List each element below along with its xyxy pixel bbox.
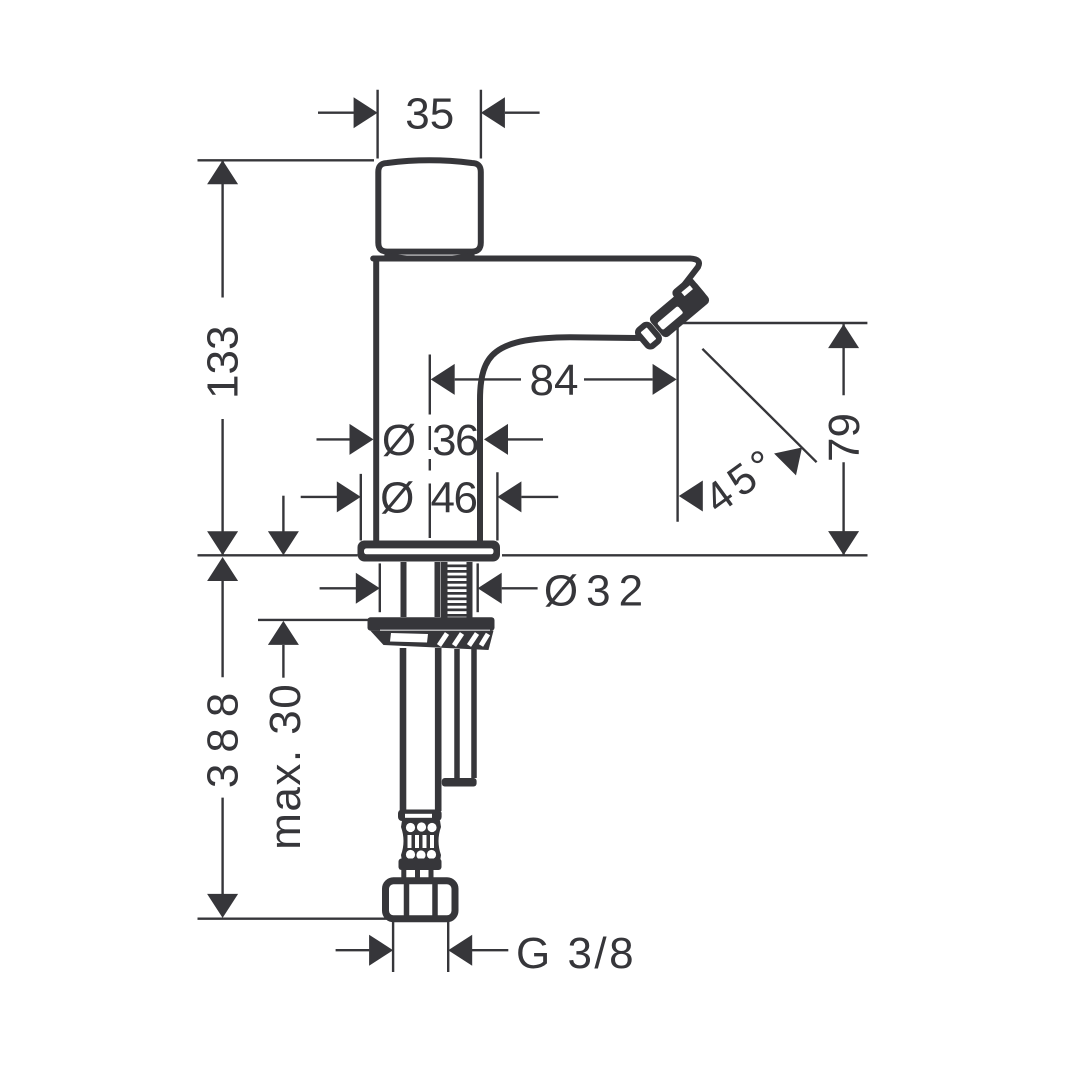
dimension 35 extension line right xyxy=(480,90,482,159)
dimension 133 top extension line xyxy=(198,159,375,161)
dimension G38 tail right xyxy=(472,949,508,951)
dimension D36 tail right xyxy=(508,438,543,440)
svg-text:max. 30: max. 30 xyxy=(261,683,310,850)
dimension 79 top extension line xyxy=(682,322,868,324)
mounting rod end cap xyxy=(442,778,477,787)
dimension 79 line lower xyxy=(842,462,844,555)
threaded shank xyxy=(441,562,473,618)
dimension G38 tail left xyxy=(336,949,370,951)
dimension D46 extension line left xyxy=(360,474,362,541)
dimension 79 line upper xyxy=(842,324,844,395)
arrowhead D36 right xyxy=(484,424,508,455)
dimension G38 extension line left xyxy=(392,921,394,972)
dimension D32 extension line left xyxy=(379,563,381,612)
dimension D32 tail right xyxy=(502,587,538,589)
arrowhead D36 left xyxy=(350,424,374,455)
svg-text:Ø: Ø xyxy=(382,416,416,465)
dimension max30 lower tail xyxy=(282,645,284,678)
arrowhead 84 left xyxy=(431,364,455,395)
svg-text:46: 46 xyxy=(431,473,477,522)
dimension 133 line upper xyxy=(221,160,223,297)
svg-text:79: 79 xyxy=(820,413,869,462)
dimension D32 tail left xyxy=(320,587,356,589)
supply pipe lower section xyxy=(403,648,438,811)
dimension 133 line lower xyxy=(221,419,223,555)
svg-text:Ø32: Ø32 xyxy=(544,566,651,615)
arrowhead 45deg on diagonal xyxy=(774,437,813,476)
svg-text:133: 133 xyxy=(199,326,248,399)
svg-text:36: 36 xyxy=(432,416,478,465)
svg-text:Ø: Ø xyxy=(380,473,414,522)
dimension 45deg diagonal line xyxy=(702,349,816,462)
arrowhead 133 bottom xyxy=(207,531,238,555)
dimension D46 tail right xyxy=(521,496,558,498)
svg-text:G 3/8: G 3/8 xyxy=(516,929,636,978)
dimension max30 upper tail xyxy=(282,496,284,532)
arrowhead D32 right xyxy=(478,573,502,604)
hose neck with slots xyxy=(404,870,431,882)
centerline axis dashed xyxy=(429,355,431,539)
arrowhead G38 left xyxy=(369,935,393,966)
faucet body and spout outline xyxy=(373,259,699,541)
arrowhead G38 right xyxy=(448,935,472,966)
dimension 388 bottom extension line xyxy=(198,918,392,920)
arrowhead 79 bottom xyxy=(828,531,859,555)
arrowhead 388 top xyxy=(207,557,238,581)
dimension 35 extension line left xyxy=(376,90,378,159)
arrowhead max30 top xyxy=(268,531,299,555)
dimension 388 line lower xyxy=(221,798,223,894)
arrowhead 35 right xyxy=(481,97,505,128)
arrowhead D46 right xyxy=(497,481,521,512)
dimension G38 extension line right xyxy=(447,921,449,972)
arrowhead 35 left xyxy=(354,97,378,128)
base flange xyxy=(358,541,501,562)
dimension 84 tail right xyxy=(584,378,653,380)
aerator assembly at 45 degrees xyxy=(631,276,711,351)
faucet handle knob xyxy=(378,160,481,259)
svg-text:388: 388 xyxy=(199,682,248,788)
hose lower collar xyxy=(399,859,442,871)
dimension 35 tail left xyxy=(318,111,354,113)
mounting washer top bar xyxy=(368,617,495,630)
arrowhead 84 right xyxy=(653,364,677,395)
countertop line right xyxy=(502,554,868,556)
threaded mounting rod xyxy=(457,649,474,778)
dimension D46 extension line right xyxy=(496,472,498,540)
dimension 84 tail left xyxy=(455,378,521,380)
dimension D36 tail left xyxy=(317,438,351,440)
arrowhead max30 bottom xyxy=(268,621,299,645)
dimension 35 tail right xyxy=(505,111,540,113)
hose corrugated section xyxy=(401,821,441,862)
arrowhead D32 left xyxy=(356,573,380,604)
arrowhead D46 left xyxy=(337,481,361,512)
dimension 84 right extension line xyxy=(676,323,678,522)
svg-text:84: 84 xyxy=(530,356,579,405)
arrowhead 388 bottom xyxy=(207,894,238,918)
dimension max30 washer extension line xyxy=(258,619,371,621)
dimension 388 line upper xyxy=(221,578,223,677)
arrowhead 133 top xyxy=(207,160,238,184)
arrowhead 79 top xyxy=(828,324,859,348)
supply pipe upper section xyxy=(404,562,438,617)
countertop line left xyxy=(198,554,358,556)
G38 connection nut xyxy=(386,881,456,919)
mounting wedge with slots xyxy=(370,631,493,650)
hose upper collar xyxy=(398,810,442,822)
dimension D46 tail left xyxy=(301,496,337,498)
svg-text:35: 35 xyxy=(405,90,454,139)
dimension D32 extension line right xyxy=(477,563,479,612)
arrowhead 45deg on vertical xyxy=(679,481,703,512)
